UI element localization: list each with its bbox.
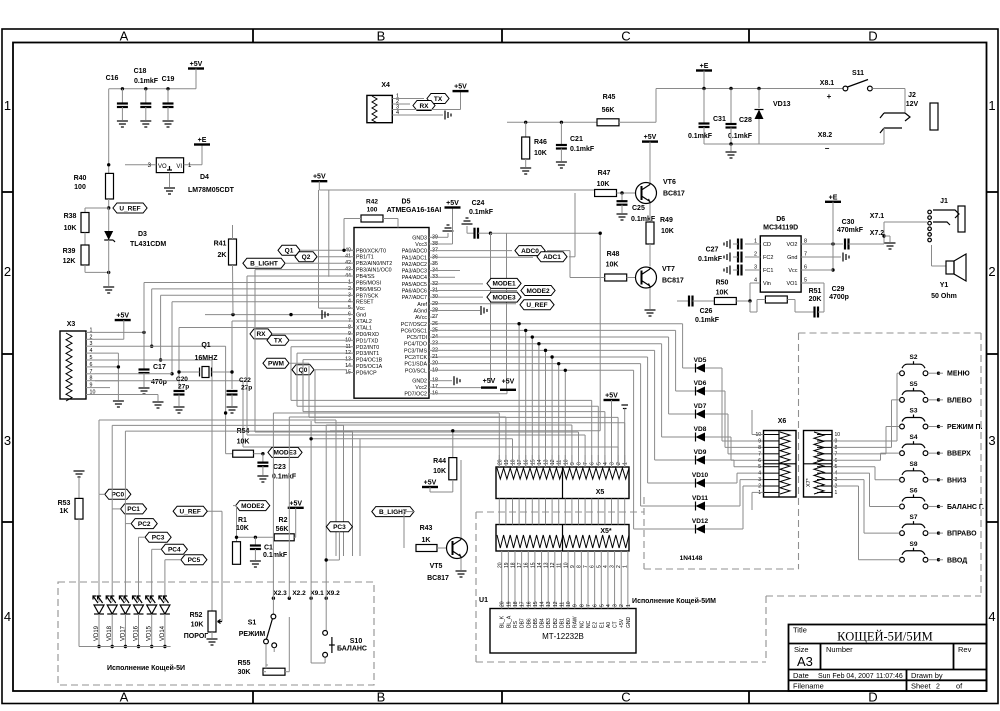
svg-text:10K: 10K [606,262,619,269]
svg-text:AGnd: AGnd [413,308,427,314]
svg-text:50 Ohm: 50 Ohm [931,293,957,300]
svg-text:C16: C16 [106,75,119,82]
svg-text:X2.3: X2.3 [273,590,287,597]
svg-text:C25: C25 [632,205,645,212]
svg-text:PA6/ADC6: PA6/ADC6 [402,289,427,295]
svg-text:X2.2: X2.2 [292,590,306,597]
svg-text:RX: RX [256,331,266,338]
svg-text:0.1mkF: 0.1mkF [272,474,297,481]
svg-text:B_LIGHT: B_LIGHT [379,509,407,516]
svg-text:R45: R45 [603,94,616,101]
svg-text:PB2/AIN0/INT2: PB2/AIN0/INT2 [356,261,392,267]
svg-text:X8.2: X8.2 [818,132,833,139]
svg-text:VO2: VO2 [786,242,797,248]
svg-text:8: 8 [579,604,585,607]
svg-text:+5V: +5V [605,393,618,400]
svg-text:16: 16 [526,601,532,607]
svg-text:9: 9 [758,438,761,444]
svg-text:+5V: +5V [289,500,302,507]
svg-text:16: 16 [524,459,530,465]
svg-text:56K: 56K [602,107,615,114]
svg-text:C22: C22 [239,377,251,384]
svg-text:Size: Size [794,645,809,654]
svg-text:6: 6 [90,362,93,368]
svg-text:MODE3: MODE3 [273,450,297,457]
svg-text:S8: S8 [910,461,918,468]
svg-text:VD16: VD16 [134,625,140,641]
svg-text:7: 7 [804,252,807,258]
svg-text:MC34119D: MC34119D [763,225,798,232]
svg-text:Gnd: Gnd [787,255,797,261]
svg-text:VD13: VD13 [773,101,791,108]
svg-text:Sun Feb 04, 2007: Sun Feb 04, 2007 [818,673,874,680]
svg-text:GND: GND [626,617,632,629]
svg-text:DB4: DB4 [540,618,546,628]
svg-text:Date: Date [793,671,809,680]
svg-text:9: 9 [90,383,93,389]
svg-text:0.1mkF: 0.1mkF [570,146,595,153]
svg-text:DB1: DB1 [559,618,565,628]
svg-text:NC: NC [586,620,592,628]
svg-text:PC3: PC3 [333,524,346,531]
svg-text:PD6/ICP: PD6/ICP [356,370,377,376]
svg-text:PD5/OC1A: PD5/OC1A [356,364,383,370]
svg-text:0.1mkF: 0.1mkF [469,209,494,216]
svg-text:DB7: DB7 [520,618,526,628]
svg-text:12: 12 [550,459,556,465]
svg-text:9: 9 [573,604,579,607]
svg-text:3: 3 [613,604,619,607]
svg-text:Vin: Vin [763,281,771,287]
svg-text:1: 1 [835,490,838,496]
svg-text:2K: 2K [218,252,227,259]
svg-text:VD14: VD14 [160,625,166,641]
svg-text:AVcc: AVcc [415,315,427,321]
svg-text:10: 10 [90,390,96,396]
svg-text:PD7/OC2: PD7/OC2 [404,392,427,398]
svg-text:VD10: VD10 [692,472,709,479]
svg-text:8: 8 [758,445,761,451]
svg-text:C21: C21 [570,136,583,143]
svg-text:PB7/SCK: PB7/SCK [356,293,379,299]
svg-text:VD9: VD9 [694,449,707,456]
svg-text:C19: C19 [162,76,175,83]
svg-text:6: 6 [758,458,761,464]
svg-text:LM78M05CDT: LM78M05CDT [188,187,235,194]
svg-text:VO: VO [158,164,167,170]
svg-text:S3: S3 [910,408,918,415]
svg-text:13: 13 [546,601,552,607]
svg-text:S7: S7 [910,514,918,521]
svg-text:КОЩЕЙ-5И/5ИМ: КОЩЕЙ-5И/5ИМ [837,630,933,644]
svg-text:S10: S10 [350,638,363,645]
svg-text:X8.1: X8.1 [820,80,835,87]
svg-text:DB5: DB5 [533,618,539,628]
svg-text:PC3/TMS: PC3/TMS [404,348,427,354]
svg-text:DB0: DB0 [566,618,572,628]
svg-text:VT6: VT6 [663,179,676,186]
svg-text:A0: A0 [606,622,612,628]
svg-text:CD: CD [763,242,771,248]
svg-text:14: 14 [540,601,546,607]
svg-text:5: 5 [758,464,761,470]
svg-text:E2: E2 [593,622,599,628]
svg-text:C28: C28 [739,117,752,124]
svg-text:7: 7 [758,451,761,457]
svg-text:PC4: PC4 [168,547,181,554]
svg-text:PWM: PWM [268,361,284,368]
svg-text:18: 18 [511,562,517,568]
svg-text:PA2/ADC2: PA2/ADC2 [402,262,427,268]
svg-text:ВВОД: ВВОД [947,557,967,564]
svg-text:A3: A3 [797,654,813,669]
svg-text:4: 4 [90,348,93,354]
svg-text:19: 19 [504,459,510,465]
svg-text:10: 10 [566,601,572,607]
svg-text:C26: C26 [700,308,713,315]
svg-text:5: 5 [599,604,605,607]
svg-text:ВВЕРХ: ВВЕРХ [947,451,971,458]
svg-text:XTAL2: XTAL2 [356,319,372,325]
svg-text:3: 3 [90,341,93,347]
svg-text:0.1mkF: 0.1mkF [263,552,288,559]
svg-text:+5V: +5V [483,378,496,385]
svg-text:A: A [120,690,129,705]
svg-text:C24: C24 [472,200,485,207]
svg-text:R55: R55 [238,660,251,667]
svg-text:10K: 10K [716,290,729,297]
svg-text:+5V: +5V [116,313,129,320]
svg-text:C17: C17 [153,364,166,371]
svg-text:GND2: GND2 [412,379,427,385]
svg-text:10: 10 [563,459,569,465]
svg-text:PD0/RXD: PD0/RXD [356,332,379,338]
svg-text:PC6/OSC1: PC6/OSC1 [401,328,427,334]
svg-text:4: 4 [396,110,399,116]
svg-text:C30: C30 [842,219,855,226]
svg-text:10K: 10K [191,622,204,629]
svg-text:C1: C1 [264,545,273,552]
svg-text:VI: VI [176,164,182,170]
svg-text:18: 18 [511,459,517,465]
svg-text:11: 11 [559,602,565,607]
svg-text:R46: R46 [534,139,547,146]
svg-text:17: 17 [517,459,523,465]
svg-text:A: A [120,29,129,44]
svg-text:2: 2 [988,264,995,279]
svg-text:20K: 20K [809,296,822,303]
svg-text:4700p: 4700p [829,294,849,301]
svg-text:MODE2: MODE2 [526,288,550,295]
svg-text:Number: Number [826,645,853,654]
svg-text:Исполнение Кощей-5ИМ: Исполнение Кощей-5ИМ [632,597,716,605]
svg-text:1: 1 [758,490,761,496]
svg-text:PA0/ADC0: PA0/ADC0 [402,249,427,255]
svg-text:БАЛАНС Г.: БАЛАНС Г. [947,504,984,511]
svg-text:30K: 30K [238,669,251,676]
svg-text:MODE1: MODE1 [492,281,516,288]
svg-text:VD6: VD6 [694,380,707,387]
svg-text:Title: Title [793,626,807,635]
svg-text:C27: C27 [706,247,719,254]
svg-text:+5V: +5V [619,618,625,628]
svg-text:2: 2 [4,264,11,279]
svg-text:3: 3 [988,433,995,448]
svg-text:PC0: PC0 [111,492,124,499]
svg-text:FC2: FC2 [763,255,773,261]
svg-text:D4: D4 [200,174,209,181]
svg-text:XTAL1: XTAL1 [356,325,372,331]
svg-text:27p: 27p [178,384,189,391]
svg-text:Drawn by: Drawn by [911,671,943,680]
svg-text:ПОРОГ: ПОРОГ [184,633,208,640]
svg-text:PB4/SS: PB4/SS [356,274,375,280]
svg-text:PC0/SCL: PC0/SCL [405,368,427,374]
svg-text:PB5/MOSI: PB5/MOSI [356,280,381,286]
svg-text:5: 5 [90,355,93,361]
svg-text:16: 16 [524,562,530,568]
svg-text:10K: 10K [433,468,446,475]
svg-text:ADC0: ADC0 [521,248,539,255]
svg-text:10: 10 [835,432,841,438]
svg-text:VO1: VO1 [786,281,797,287]
svg-text:20: 20 [500,601,506,607]
svg-text:Q2: Q2 [302,254,311,261]
svg-text:3: 3 [610,462,616,465]
svg-text:R47: R47 [598,170,611,177]
svg-text:МЕНЮ: МЕНЮ [947,371,970,378]
svg-text:ATMEGA16-16AI: ATMEGA16-16AI [387,207,442,214]
svg-text:TL431CDM: TL431CDM [130,241,166,248]
svg-text:TX: TX [274,338,283,345]
svg-text:Vcc: Vcc [356,306,365,312]
svg-text:PC4/TDO: PC4/TDO [404,342,427,348]
svg-text:PC1: PC1 [127,506,140,513]
svg-text:4: 4 [4,609,11,624]
svg-text:+5V: +5V [190,61,203,68]
svg-text:20: 20 [497,459,503,465]
svg-text:R39: R39 [63,248,76,255]
svg-text:1N4148: 1N4148 [680,555,703,562]
svg-text:10K: 10K [64,225,77,232]
svg-text:+5V: +5V [644,134,657,141]
svg-text:PB1/T1: PB1/T1 [356,255,374,261]
svg-text:1: 1 [626,604,632,607]
svg-text:4: 4 [754,278,757,284]
svg-text:9: 9 [570,462,576,465]
svg-text:PD3/INT1: PD3/INT1 [356,351,379,357]
svg-text:PD1/TXD: PD1/TXD [356,338,379,344]
svg-text:PC7/OSC2: PC7/OSC2 [401,322,427,328]
svg-text:4: 4 [988,609,995,624]
svg-text:DB2: DB2 [553,618,559,628]
svg-text:2: 2 [619,604,625,607]
svg-text:GND3: GND3 [412,235,427,241]
svg-text:PC1/SDA: PC1/SDA [404,362,427,368]
svg-text:+E: +E [700,63,709,70]
svg-text:C23: C23 [273,464,286,471]
svg-text:S1: S1 [248,620,257,627]
svg-text:6: 6 [590,462,596,465]
svg-text:12K: 12K [63,258,76,265]
svg-text:10K: 10K [236,525,249,532]
svg-text:VD5: VD5 [694,357,707,364]
svg-text:C: C [621,29,630,44]
svg-text:13: 13 [544,459,550,465]
svg-text:RS: RS [513,620,519,628]
svg-text:C29: C29 [832,286,845,293]
svg-text:VT5: VT5 [430,563,443,570]
svg-text:R2: R2 [279,517,288,524]
svg-text:BC817: BC817 [427,575,449,582]
svg-text:1: 1 [988,98,995,113]
svg-text:ВЛЕВО: ВЛЕВО [947,397,972,404]
svg-text:D: D [868,29,877,44]
svg-text:12: 12 [553,601,559,607]
svg-text:3: 3 [4,433,11,448]
svg-text:PC3: PC3 [152,535,165,542]
svg-text:2: 2 [616,462,622,465]
svg-text:C: C [621,690,630,705]
svg-text:BL_K: BL_K [500,615,506,628]
svg-text:S6: S6 [910,487,918,494]
svg-text:PC5: PC5 [188,557,201,564]
svg-text:Rev: Rev [958,645,972,654]
svg-text:11: 11 [557,460,563,465]
svg-text:БАЛАНС: БАЛАНС [337,646,367,653]
svg-text:15: 15 [533,601,539,607]
svg-text:19: 19 [506,601,512,607]
svg-text:D5: D5 [402,199,411,206]
svg-text:100: 100 [367,207,378,214]
svg-text:R43: R43 [420,525,433,532]
svg-text:Vcc2: Vcc2 [415,385,427,391]
svg-text:1K: 1K [422,537,431,544]
svg-text:FC1: FC1 [763,268,773,274]
svg-text:PC2/TCK: PC2/TCK [405,355,428,361]
svg-text:VD8: VD8 [694,426,707,433]
svg-text:PA1/ADC1: PA1/ADC1 [402,255,427,261]
svg-text:J2: J2 [908,92,916,99]
svg-text:18: 18 [513,601,519,607]
svg-text:+5V: +5V [446,200,459,207]
svg-text:6: 6 [804,265,807,271]
svg-text:ВНИЗ: ВНИЗ [947,477,967,484]
svg-text:E1: E1 [599,622,605,628]
svg-text:VD17: VD17 [120,625,126,641]
svg-text:BL_A: BL_A [506,615,512,628]
svg-text:S11: S11 [852,70,864,77]
svg-text:C31: C31 [713,116,726,123]
svg-text:+E: +E [829,194,838,201]
svg-text:20: 20 [497,562,503,568]
svg-text:2: 2 [758,484,761,490]
svg-text:Q1: Q1 [285,248,294,255]
svg-text:1K: 1K [60,508,69,515]
svg-text:X5*: X5* [600,528,612,535]
svg-text:VD12: VD12 [692,518,709,525]
svg-text:RAW: RAW [573,616,579,628]
svg-text:1: 1 [623,462,629,465]
svg-text:Filename: Filename [793,682,824,691]
svg-text:X7*: X7* [806,477,812,487]
svg-text:Y1: Y1 [940,282,949,289]
svg-text:+5V: +5V [502,379,515,386]
svg-text:S5: S5 [910,381,918,388]
svg-text:PA7/ADC7: PA7/ADC7 [402,295,427,301]
svg-text:+5V: +5V [424,480,437,487]
svg-text:7: 7 [90,369,93,375]
svg-text:0.1mkF: 0.1mkF [698,256,723,263]
svg-text:+5V: +5V [313,174,326,181]
svg-text:11:07:46: 11:07:46 [876,673,903,680]
svg-text:VT7: VT7 [662,266,675,273]
svg-text:7: 7 [583,462,589,465]
svg-text:10K: 10K [534,150,547,157]
svg-text:0.1mkF: 0.1mkF [134,78,159,85]
svg-text:VD18: VD18 [107,625,113,641]
svg-text:of: of [956,682,963,691]
svg-text:VD7: VD7 [694,403,707,410]
svg-text:10K: 10K [661,228,674,235]
svg-text:RX: RX [419,103,429,110]
svg-text:+5V: +5V [454,84,467,91]
svg-text:6: 6 [593,604,599,607]
svg-text:8: 8 [577,462,583,465]
svg-text:14: 14 [537,459,543,465]
svg-text:CT: CT [613,621,619,628]
svg-text:R52: R52 [190,612,203,619]
svg-text:C20: C20 [176,376,188,383]
svg-text:3: 3 [758,477,761,483]
svg-text:R40: R40 [74,175,87,182]
svg-text:DB3: DB3 [546,618,552,628]
svg-text:U1: U1 [479,597,488,604]
svg-text:МТ-12232В: МТ-12232В [542,632,584,641]
svg-text:Исполнение Кощей-5И: Исполнение Кощей-5И [107,664,185,672]
svg-text:PB3/AIN1/OC0: PB3/AIN1/OC0 [356,268,392,274]
svg-text:B_LIGHT: B_LIGHT [250,261,278,268]
svg-text:12V: 12V [906,101,919,108]
svg-text:J1: J1 [940,198,948,205]
svg-text:MODE3: MODE3 [492,294,516,301]
svg-text:X9.2: X9.2 [326,590,340,597]
svg-text:1: 1 [90,327,93,333]
svg-text:−: − [825,144,830,153]
svg-text:2: 2 [936,684,940,691]
svg-text:15: 15 [530,459,536,465]
svg-text:PA3/ADC3: PA3/ADC3 [402,269,427,275]
svg-text:U_REF: U_REF [180,509,201,516]
svg-text:PB6/MISO: PB6/MISO [356,287,381,293]
svg-text:16MHZ: 16MHZ [195,355,219,362]
svg-text:17: 17 [520,601,526,607]
svg-text:X3: X3 [67,321,76,328]
svg-text:4: 4 [758,471,761,477]
svg-text:4: 4 [606,604,612,607]
svg-text:VD15: VD15 [147,625,153,641]
svg-text:PC5/TDI: PC5/TDI [407,335,427,341]
svg-text:5: 5 [596,462,602,465]
svg-text:0.1mkF: 0.1mkF [728,133,753,140]
svg-text:10K: 10K [597,181,610,188]
svg-text:R41: R41 [214,241,227,248]
svg-text:2: 2 [90,334,93,340]
svg-text:X5: X5 [596,489,605,496]
svg-text:8: 8 [90,376,93,382]
svg-text:PB0/XCK/T0: PB0/XCK/T0 [356,248,386,254]
svg-text:DB6: DB6 [526,618,532,628]
